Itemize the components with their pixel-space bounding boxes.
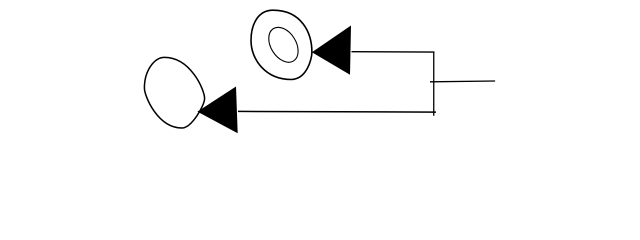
wire: middle stub line xyxy=(430,80,495,83)
node B outer ellipse (double ellipse, top) xyxy=(251,10,312,79)
node B inner ellipse xyxy=(263,22,304,68)
wire: bottom edge line to corner xyxy=(238,110,436,113)
node A (single ellipse, lower left) xyxy=(144,57,204,128)
wire: top edge line from arrowhead to corner xyxy=(352,51,435,53)
arrowhead into node A xyxy=(197,87,237,134)
wire: vertical line xyxy=(433,52,435,116)
arrowhead into node B xyxy=(312,26,351,75)
